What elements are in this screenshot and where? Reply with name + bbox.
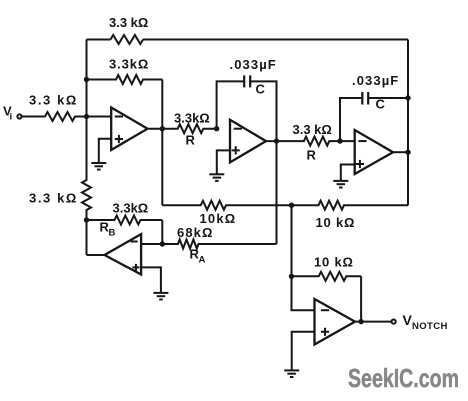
capacitor C .033uF over U2 — [217, 81, 245, 128]
node U1 output — [160, 126, 165, 131]
node U5 inverting input — [160, 241, 165, 246]
wire U5 output back to left bus — [87, 254, 105, 256]
svg-text:3.3 kΩ: 3.3 kΩ — [293, 122, 332, 137]
node U4 output — [358, 319, 363, 324]
wire RB right vertical to U5 inverting input — [161, 220, 163, 244]
wire U2 plus input to ground — [217, 150, 230, 174]
node summing bus top — [289, 203, 294, 208]
resistor 3.3 kohm input — [22, 112, 111, 121]
svg-text:3.3kΩ: 3.3kΩ — [113, 201, 149, 216]
svg-text:R: R — [307, 148, 317, 163]
resistor 10 kohm from U1 output bus — [162, 201, 291, 210]
svg-text:3.3kΩ: 3.3kΩ — [174, 111, 210, 126]
op-amp U1 — [111, 108, 147, 151]
op-amp U5 (points left) — [105, 234, 142, 274]
resistor 3.3 kohm vertical from input node — [82, 117, 91, 221]
svg-text:A: A — [199, 255, 206, 266]
node cap C3 right junction — [405, 95, 410, 100]
resistor 10 kohm U4 feedback — [292, 272, 362, 281]
node U2 output — [274, 138, 279, 143]
node second feedback junction — [84, 77, 89, 82]
wire summing bus vertical to U4 inverting input — [292, 205, 315, 310]
wire left bus lower segment — [86, 220, 88, 255]
wire U1 plus input to ground — [99, 139, 111, 163]
svg-text:3.3 kΩ: 3.3 kΩ — [109, 15, 148, 30]
ground U2 — [209, 173, 224, 175]
resistor R 3.3 kohm between U2 and U3 — [266, 137, 355, 146]
ground U3 — [333, 180, 348, 182]
op-amp U3 — [355, 130, 393, 174]
resistor RA 68 kohm — [162, 240, 276, 249]
svg-text:3.3 kΩ: 3.3 kΩ — [29, 191, 78, 206]
ground U4 — [284, 369, 299, 371]
capacitor C .033uF over U3 — [340, 98, 362, 141]
ground U1 — [91, 162, 106, 164]
wire U5 inverting input — [141, 243, 162, 245]
input terminal Vi — [17, 114, 21, 118]
wire U4 plus input to ground — [292, 332, 315, 371]
svg-text:C: C — [376, 97, 386, 112]
wire top feedback right run — [143, 39, 408, 41]
svg-text:3.3kΩ: 3.3kΩ — [109, 57, 149, 72]
wire U3 plus input to ground — [341, 165, 355, 181]
ground U5 — [153, 292, 168, 294]
svg-text:C: C — [256, 82, 266, 97]
svg-text:NOTCH: NOTCH — [412, 321, 448, 332]
output terminal Vnotch — [392, 320, 396, 324]
node U3 output junction — [405, 150, 410, 155]
svg-text:.033µF: .033µF — [352, 73, 399, 88]
node U3 inverting input — [337, 138, 342, 143]
svg-text:10 kΩ: 10 kΩ — [314, 255, 354, 270]
svg-text:10 kΩ: 10 kΩ — [316, 215, 356, 230]
wire left vertical bus x=86.5 — [86, 40, 88, 181]
wire right-side vertical from top feedback down to U3 output — [407, 40, 409, 206]
svg-text:3.3 kΩ: 3.3 kΩ — [29, 93, 78, 108]
wire U4 output — [355, 321, 391, 323]
resistor 3.3 kohm U1 feedback — [87, 75, 163, 84]
node U1 inverting input junction — [84, 114, 89, 119]
svg-text:V: V — [403, 312, 413, 328]
resistor 10 kohm from U3 output — [292, 201, 409, 210]
svg-text:i: i — [10, 112, 13, 123]
wire RA vertical up to U2 output — [276, 141, 278, 244]
node RB feedback left junction — [84, 217, 89, 222]
wire U5 plus input to ground — [141, 267, 161, 293]
wire U3 output — [393, 151, 408, 153]
op-amp U4 — [315, 299, 356, 345]
resistor RB 3.3 kohm — [87, 216, 163, 225]
wire U1 feedback vertical to output — [161, 80, 163, 206]
svg-text:68kΩ: 68kΩ — [177, 225, 214, 240]
resistor 3.3 kohm top feedback — [111, 35, 144, 44]
node U2 inverting input — [214, 126, 219, 131]
wire top feedback left lead — [87, 39, 111, 41]
svg-text:R: R — [186, 133, 196, 148]
resistor R 3.3 kohm between U1 and U2 — [148, 124, 217, 133]
svg-text:SeekIC.com: SeekIC.com — [348, 363, 459, 393]
wire U4 feedback vertical — [360, 276, 362, 321]
svg-text:.033µF: .033µF — [230, 57, 277, 72]
svg-text:B: B — [109, 228, 116, 239]
op-amp U2 — [230, 120, 266, 163]
svg-text:10kΩ: 10kΩ — [200, 211, 237, 226]
node summing bus lower — [289, 274, 294, 279]
